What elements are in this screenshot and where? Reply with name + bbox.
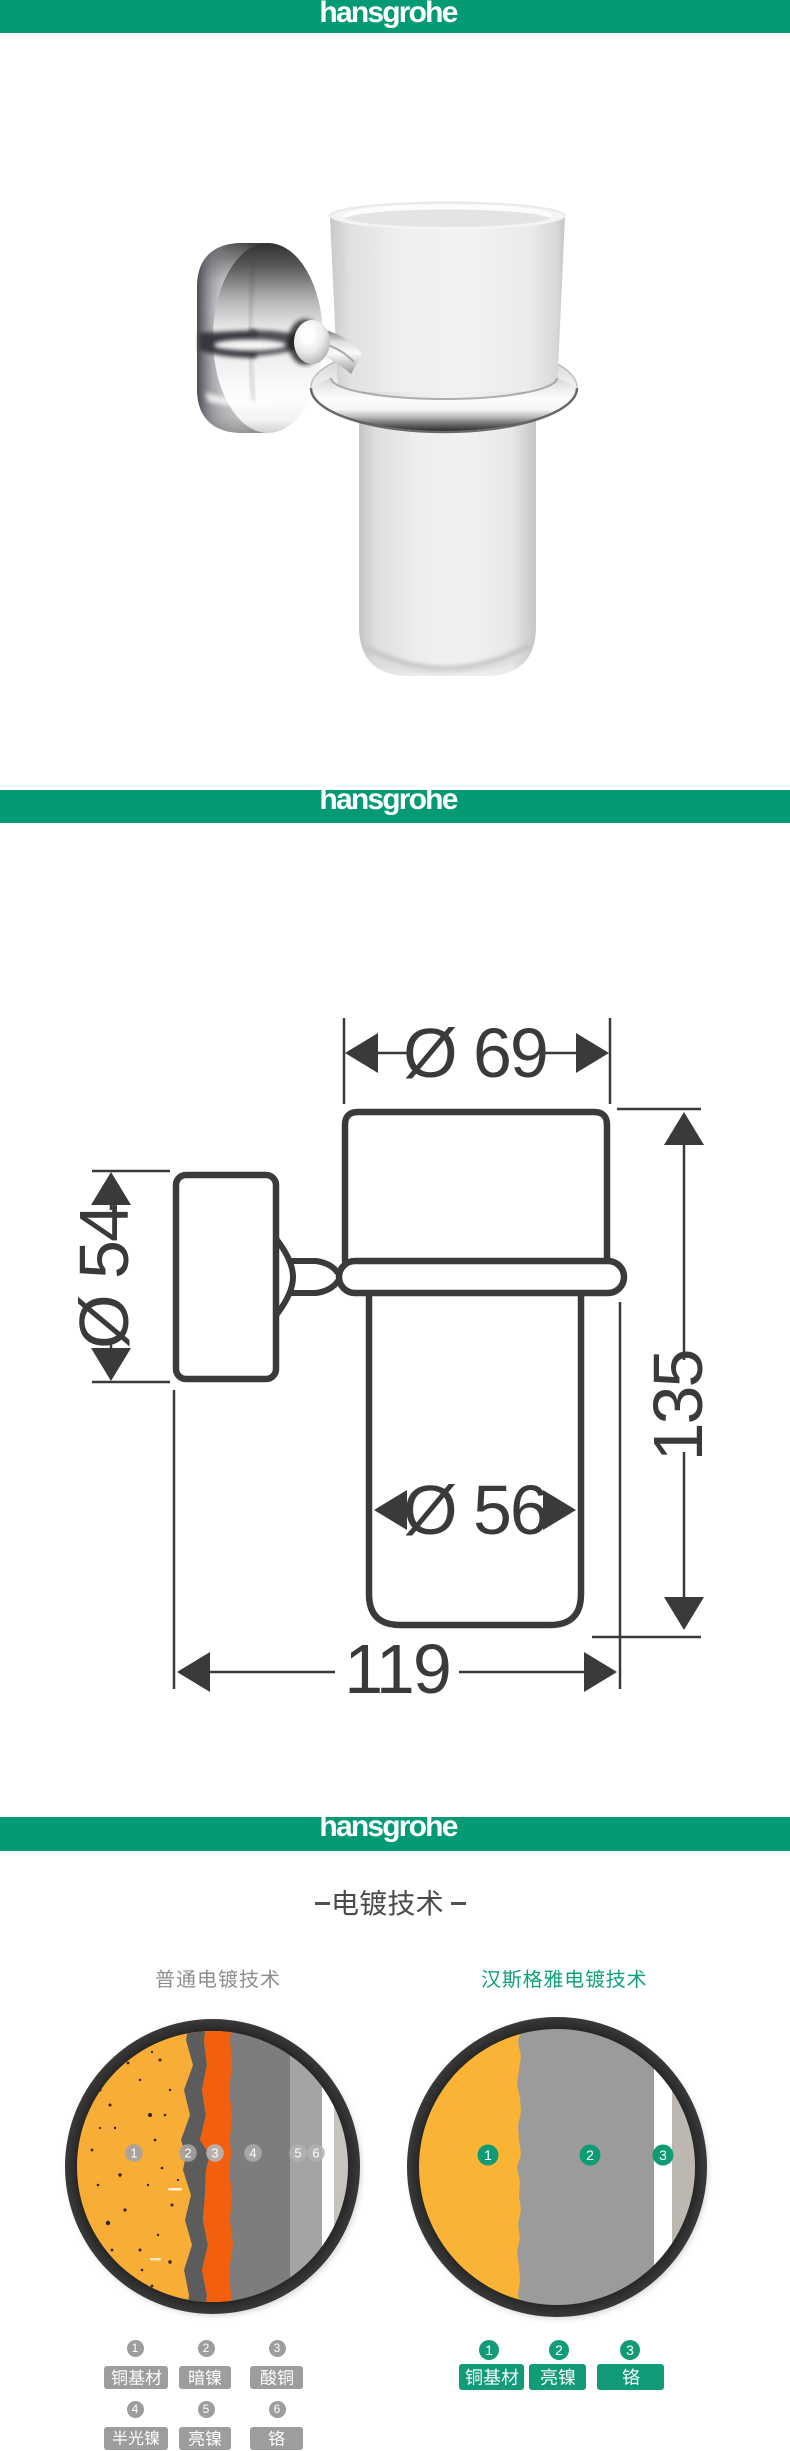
svg-text:119: 119 xyxy=(344,1630,450,1708)
svg-text:Ø 69: Ø 69 xyxy=(403,1014,547,1092)
svg-text:6: 6 xyxy=(312,2146,319,2161)
svg-text:Ø 54: Ø 54 xyxy=(65,1205,143,1349)
svg-text:5: 5 xyxy=(294,2146,301,2161)
svg-text:2: 2 xyxy=(184,2146,191,2161)
svg-text:1: 1 xyxy=(484,2147,492,2163)
svg-text:4: 4 xyxy=(249,2146,256,2161)
svg-text:Ø 56: Ø 56 xyxy=(403,1471,547,1549)
svg-text:3: 3 xyxy=(211,2146,218,2161)
svg-text:2: 2 xyxy=(586,2147,594,2163)
svg-text:1: 1 xyxy=(130,2146,137,2161)
svg-text:3: 3 xyxy=(659,2147,667,2163)
svg-text:135: 135 xyxy=(639,1351,717,1462)
